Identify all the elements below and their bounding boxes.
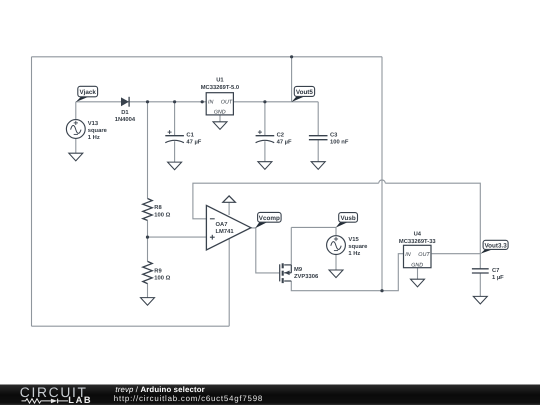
wire R8 branch: [147, 102, 149, 199]
wire U1 out rail: [234, 101, 319, 103]
wire C7 upper lead: [479, 254, 481, 269]
svg-text:C2: C2: [277, 132, 284, 139]
svg-text:square: square: [348, 244, 368, 250]
svg-text:MC33269T-5.0: MC33269T-5.0: [201, 84, 239, 91]
svg-text:Vjack: Vjack: [79, 89, 96, 96]
ground U4: [411, 279, 425, 287]
mosfet M9: [280, 263, 319, 283]
svg-text:C3: C3: [330, 132, 338, 139]
svg-text:U4: U4: [414, 232, 422, 238]
svg-text:V13: V13: [88, 120, 99, 127]
node flag Vout3.3: [480, 240, 508, 253]
svg-text:47 µF: 47 µF: [186, 140, 201, 146]
wire C3 lower lead: [317, 140, 319, 161]
svg-text:U1: U1: [216, 77, 224, 83]
svg-text:R8: R8: [154, 204, 162, 211]
op-amp OA7: [206, 205, 251, 250]
node flag Vcomp: [255, 212, 281, 228]
footer bar: [0, 385, 540, 405]
svg-text:100 nF: 100 nF: [330, 139, 349, 146]
svg-text:MC33269T-33: MC33269T-33: [399, 238, 437, 245]
wire Vout5 drop: [291, 57, 293, 102]
node junction U1 in: [201, 100, 204, 103]
wire top edge: [32, 56, 383, 58]
wire op-amp VS+ stub: [228, 202, 230, 215]
ground V13: [69, 153, 83, 161]
wire Vjack stub: [75, 102, 77, 120]
wire op-amp VS- down: [228, 239, 230, 326]
node junction R8-R9 divider: [146, 236, 149, 239]
svg-text:Vout3.3: Vout3.3: [484, 242, 507, 249]
svg-text:C1: C1: [186, 132, 194, 139]
ground C7: [473, 296, 487, 304]
wire V15 bottom stub: [335, 255, 337, 270]
svg-text:http://circuitlab.com/c6uct54g: http://circuitlab.com/c6uct54gf7598: [114, 394, 263, 403]
wire C1 upper lead: [174, 102, 176, 135]
ground C2: [258, 162, 272, 170]
ground V15: [329, 270, 343, 278]
capacitor C3: [309, 132, 349, 146]
ground C3: [311, 162, 325, 170]
svg-text:1N4004: 1N4004: [115, 116, 136, 123]
capacitor C7: [472, 267, 504, 281]
svg-text:1 µF: 1 µF: [492, 275, 504, 281]
wire bottom edge: [32, 325, 230, 327]
svg-text:47 µF: 47 µF: [277, 140, 292, 146]
svg-text:M9: M9: [294, 266, 303, 273]
svg-text:square: square: [88, 128, 108, 134]
node junction top edge: [290, 55, 293, 58]
svg-text:100 Ω: 100 Ω: [154, 211, 170, 218]
svg-text:LM741: LM741: [216, 229, 235, 235]
svg-text:Vusb: Vusb: [341, 215, 356, 222]
wire plus input: [148, 236, 207, 238]
wire C2 upper lead: [264, 102, 266, 135]
wire drain to U4 in: [291, 254, 403, 291]
node flag Vout5: [292, 86, 315, 102]
svg-text:Vcomp: Vcomp: [259, 215, 280, 222]
svg-text:R9: R9: [154, 267, 162, 274]
wire V15 top stub: [335, 227, 337, 235]
wire R9 lower lead: [147, 283, 149, 297]
resistor R8: [143, 199, 171, 221]
svg-text:V15: V15: [348, 237, 359, 243]
node junction right rail drain: [380, 289, 383, 292]
resistor R9: [143, 261, 171, 283]
wire C1 lower lead: [174, 141, 176, 162]
wire main input rail: [76, 101, 206, 103]
capacitor C2: [256, 130, 292, 146]
wire hop over right rail: [379, 180, 386, 183]
node junction C2: [263, 100, 266, 103]
capacitor C1: [165, 130, 201, 146]
regulator U1: [201, 77, 239, 115]
svg-text:IN: IN: [208, 100, 213, 106]
wire feedback right to Vout3.3: [385, 183, 480, 254]
svg-text:D1: D1: [121, 110, 129, 116]
wire U1 gnd stub: [219, 115, 221, 122]
svg-text:Vout5: Vout5: [296, 89, 314, 96]
wire left rail: [31, 57, 33, 326]
CircuitLab logo: [20, 385, 92, 405]
node junction D1-R8: [146, 100, 149, 103]
svg-text:1 Hz: 1 Hz: [348, 251, 360, 257]
diode D1: [115, 97, 136, 123]
wire minus input feedback: [193, 183, 379, 219]
svg-text:100 Ω: 100 Ω: [154, 275, 170, 282]
wire V13 bottom stub: [75, 139, 77, 154]
wire U4 gnd stub: [417, 268, 419, 280]
wire op-amp output to gate: [251, 228, 280, 273]
wire source up to Vusb: [290, 227, 292, 265]
svg-text:LAB: LAB: [68, 395, 92, 405]
svg-text:OUT: OUT: [418, 252, 430, 258]
svg-text:GND: GND: [411, 262, 423, 268]
svg-text:OUT: OUT: [221, 100, 233, 106]
svg-text:C7: C7: [492, 267, 499, 274]
wire C7 lower lead: [479, 273, 481, 296]
svg-text:GND: GND: [214, 110, 226, 116]
ground R9: [141, 298, 155, 306]
svg-text:ZVP3306: ZVP3306: [294, 273, 319, 280]
svg-text:trevp / Arduino selector: trevp / Arduino selector: [115, 385, 204, 394]
svg-text:1 Hz: 1 Hz: [88, 135, 100, 141]
wire C2 lower lead: [264, 141, 266, 161]
wire R8-R9 mid: [147, 220, 149, 261]
ground C1: [168, 162, 182, 170]
ground U1: [213, 122, 227, 130]
svg-text:IN: IN: [405, 252, 410, 258]
node junction C1: [173, 100, 176, 103]
power flag op-amp VS+: [223, 196, 236, 202]
node flag Vjack: [76, 86, 98, 102]
voltage source V15: [327, 236, 369, 258]
voltage source V13: [66, 120, 107, 142]
wire C3 drop: [317, 102, 319, 135]
node flag Vusb: [336, 213, 358, 228]
wire U4 out: [432, 253, 481, 255]
regulator U4: [399, 232, 437, 269]
wire right rail: [381, 57, 383, 291]
wire Vusb horizontal: [291, 226, 336, 228]
svg-text:OA7: OA7: [216, 221, 228, 228]
